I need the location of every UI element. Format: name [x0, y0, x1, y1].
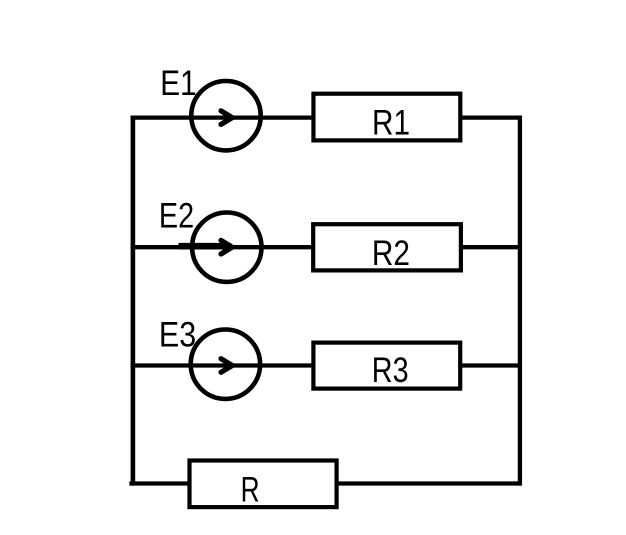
- svg-text:E3: E3: [159, 316, 196, 355]
- source circle E1: [191, 81, 260, 150]
- svg-text:R2: R2: [372, 234, 410, 273]
- resistor R2 box: [313, 224, 461, 270]
- wire left vertical: [131, 116, 136, 486]
- source circle E2: [192, 213, 261, 282]
- wire row 2 horizontal: [131, 245, 522, 249]
- svg-text:R3: R3: [372, 351, 409, 390]
- wire bottom horizontal: [129, 481, 522, 485]
- svg-text:E2: E2: [159, 197, 194, 236]
- arrow chevron E2: [221, 240, 232, 254]
- svg-text:R1: R1: [372, 104, 410, 143]
- arrow shaft E2 (thicker overlap segment): [179, 243, 232, 250]
- svg-text:R: R: [241, 470, 260, 509]
- resistor R1 box: [313, 94, 460, 141]
- wire right vertical: [518, 116, 522, 486]
- resistor R box: [190, 461, 337, 508]
- arrow chevron E1: [221, 111, 232, 125]
- svg-text:E1: E1: [160, 64, 196, 103]
- resistor R3 box: [313, 343, 460, 389]
- wire row 3 horizontal: [131, 363, 522, 367]
- source circle E3: [191, 330, 260, 399]
- arrow chevron E3: [221, 359, 232, 373]
- wire row 1 horizontal: [131, 115, 522, 119]
